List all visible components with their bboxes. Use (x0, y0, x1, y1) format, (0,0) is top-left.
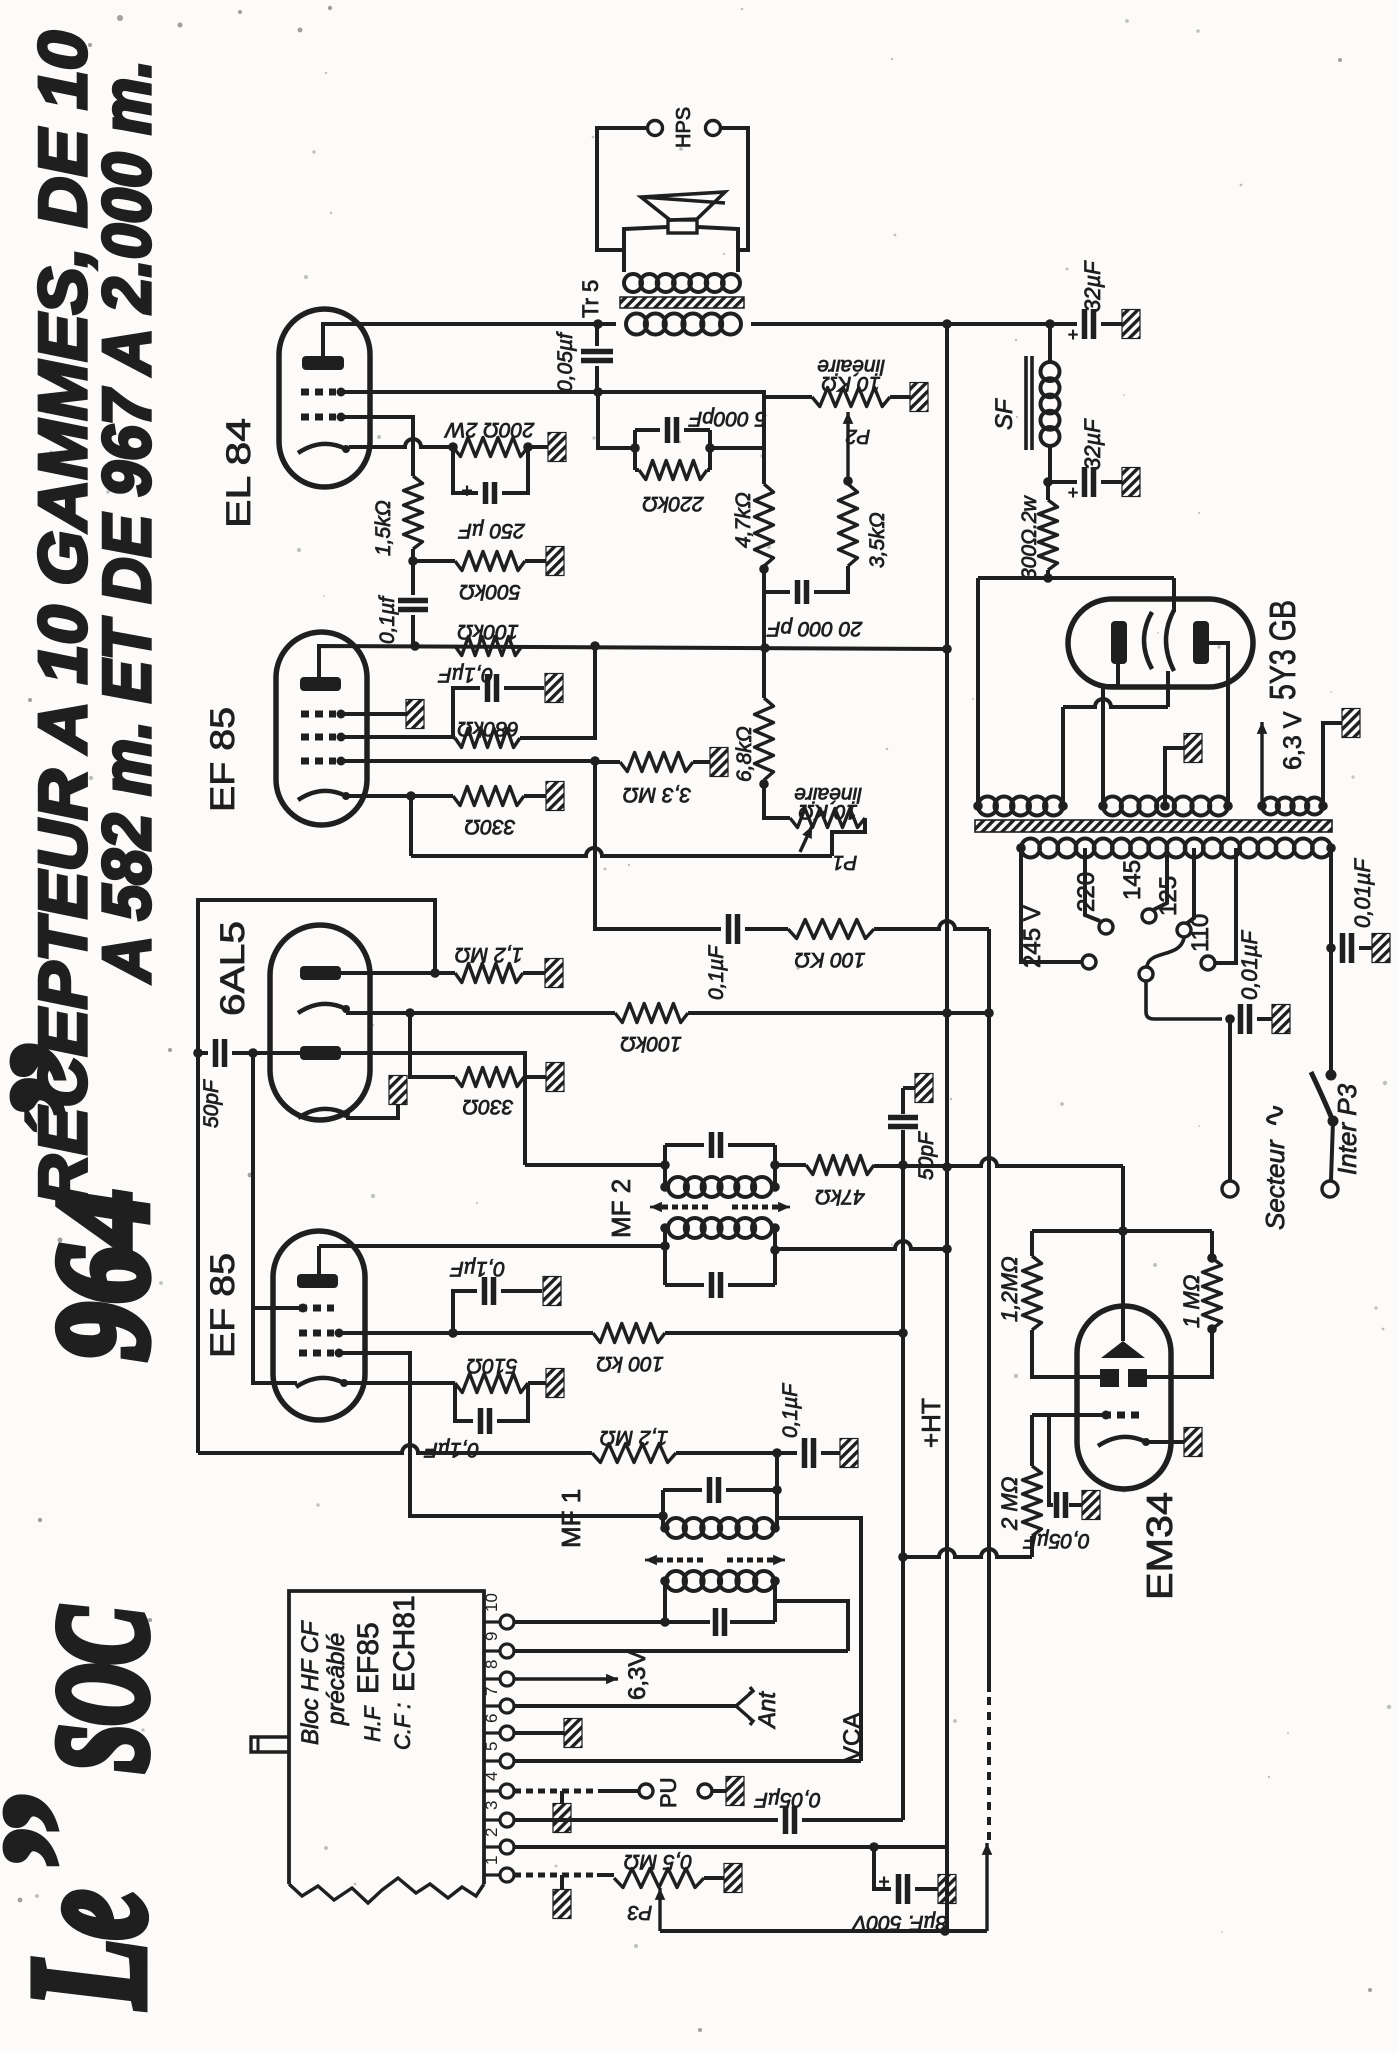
tube 5Y3GB (1068, 599, 1253, 687)
wire cathode2 to ground (346, 1104, 398, 1118)
wire pin10 to MF1 (514, 1620, 665, 1624)
wire 1M to right electrode (1147, 1329, 1212, 1377)
svg-text:0,1µF: 0,1µF (779, 1383, 802, 1438)
wire filament to 5V winding (1063, 699, 1168, 707)
choke SF winding (1048, 324, 1052, 362)
node anode-0,1uF junction (410, 641, 420, 651)
ground 330Ohm (546, 782, 564, 811)
svg-text:200Ω 2W: 200Ω 2W (444, 418, 536, 441)
svg-text:précâblé: précâblé (323, 1633, 350, 1726)
wire detector to volume (688, 1011, 989, 1015)
svg-text:500kΩ: 500kΩ (459, 580, 521, 603)
svg-text:20 000 pF: 20 000 pF (767, 617, 864, 640)
wire screen to AF filter line (665, 1331, 903, 1335)
node AF filter 1557 (898, 1552, 908, 1562)
wire rectifier top (978, 576, 1174, 580)
capacitor 0,1uF cathode second (455, 1383, 473, 1421)
ground 510Ohm (546, 1369, 564, 1398)
wire to 100k (745, 927, 788, 931)
tube EM34 (1077, 1306, 1171, 1489)
node HT rail top (942, 319, 952, 329)
transformer Tr5 secondary winding (626, 314, 647, 335)
svg-text:+: + (878, 1870, 890, 1892)
svg-text:6,8kΩ: 6,8kΩ (733, 726, 756, 782)
wire RC to 4,7k (710, 446, 764, 450)
resistor 330Ohm detector (410, 1013, 455, 1077)
resistor 500kOhm (413, 559, 455, 563)
svg-text:10 KΩ: 10 KΩ (798, 800, 857, 823)
MF1 primary tank (666, 1571, 686, 1591)
svg-text:100 KΩ: 100 KΩ (795, 948, 866, 971)
potentiometer P3 0,5MOhm (614, 1869, 704, 1888)
wire 110 tap (1216, 848, 1236, 963)
svg-text:100kΩ: 100kΩ (457, 620, 519, 643)
node detector 330 branch (405, 1008, 415, 1018)
svg-text:Bloc HF CF: Bloc HF CF (297, 1620, 324, 1745)
node screen AF-line (898, 1328, 908, 1338)
wire cathode1 AF out (346, 1011, 615, 1015)
node g1 junction (590, 756, 600, 766)
svg-text:Le: Le (0, 1890, 179, 2010)
node 4,7k bottom (759, 564, 769, 574)
capacitor 0,05uF AF (786, 1806, 795, 1834)
EM34 deflection electrodes (1100, 1369, 1119, 1387)
svg-text:A 582 m. ET DE 967 A 2.000 m.: A 582 m. ET DE 967 A 2.000 m. (89, 60, 165, 984)
ground 200Ohm (548, 433, 566, 462)
transformer core (975, 820, 1332, 832)
svg-text:8: 8 (482, 1660, 501, 1669)
svg-text:50pF: 50pF (200, 1079, 223, 1128)
wire 220 tap (1085, 848, 1100, 921)
capacitor 250uF cathode (453, 447, 478, 493)
node anode rail 595 (590, 641, 600, 651)
svg-text:47kΩ: 47kΩ (815, 1185, 865, 1208)
voltage selector link (1147, 938, 1184, 966)
wire filament top lead (1172, 578, 1176, 612)
ground PU (712, 1789, 726, 1793)
svg-text:9: 9 (482, 1632, 501, 1641)
wire VCA riser (777, 1518, 861, 1761)
svg-text:P2: P2 (846, 425, 870, 447)
terminal PU 2 (698, 1784, 712, 1798)
wire pin5 VCA (514, 1759, 861, 1763)
wire EF85-1 anode rail (319, 646, 947, 677)
wire HPS right to Tr5 frame (721, 128, 748, 250)
wire HT plate right riser (1209, 643, 1228, 806)
bloc tuning shaft (251, 1737, 289, 1752)
ground pin1 stub (560, 1875, 564, 1890)
svg-text:6: 6 (482, 1714, 501, 1723)
node detector HT cross (942, 1008, 952, 1018)
node rectifier output (1043, 573, 1053, 583)
resistor 510Ohm (455, 1374, 528, 1393)
wire 145 tap (1153, 848, 1167, 910)
wire plate2 to MF2 (341, 1053, 525, 1165)
svg-text:220: 220 (1073, 872, 1100, 912)
svg-text:6,3 V: 6,3 V (1279, 711, 1307, 770)
capacitor 5000pF (668, 417, 677, 443)
wire EL84 g2 line (345, 392, 764, 448)
wire MF2 to 47k (775, 1163, 806, 1167)
resistor 100kOhm screen (593, 1324, 665, 1343)
wire anode rail EL84 to Tr5 (323, 324, 616, 356)
node 0,01uF mains (1326, 943, 1336, 953)
svg-text:10 KΩ: 10 KΩ (821, 372, 880, 395)
svg-text:1,2MΩ: 1,2MΩ (997, 1256, 1022, 1322)
wire pin7 antenna (514, 1704, 738, 1708)
svg-text:6,3V: 6,3V (624, 1651, 651, 1700)
wire 6,3V output arrow (1260, 722, 1263, 806)
wire 50pF junction down to EF85-2 (253, 1053, 297, 1383)
svg-text:Inter P3: Inter P3 (1332, 1083, 1362, 1175)
svg-text:EL 84: EL 84 (220, 418, 258, 528)
svg-text:3,3 MΩ: 3,3 MΩ (623, 783, 692, 806)
svg-text:+: + (1067, 325, 1078, 346)
resistor P1 10k lineaire (764, 784, 790, 818)
EM34 grid (1103, 1412, 1143, 1419)
wire filament bottom lead (1166, 671, 1170, 707)
svg-text:H.F: H.F (360, 1705, 385, 1742)
wire EM34 grid lead (1032, 1413, 1103, 1417)
svg-text:1,5kΩ: 1,5kΩ (372, 500, 395, 556)
capacitor 0,1uF AF coupling (729, 914, 738, 944)
svg-text:Ant: Ant (754, 1691, 781, 1730)
resistor 200Ohm 2W (453, 438, 528, 457)
svg-text:P3: P3 (628, 1901, 652, 1923)
wire HT rail vertical (945, 324, 949, 1931)
node 47k AF-line (898, 1160, 908, 1170)
svg-text:0,1µF: 0,1µF (705, 945, 728, 1000)
node 1M bottom (1207, 1324, 1217, 1334)
wiper arrow P3 (658, 1888, 661, 1931)
wire primary right riser (1329, 848, 1333, 1075)
wire EM34 load line (1032, 1229, 1212, 1233)
resistor 6,8kOhm (762, 647, 766, 698)
svg-text:110: 110 (1187, 914, 1214, 952)
svg-text:32µF: 32µF (1080, 418, 1105, 470)
svg-text:6AL5: 6AL5 (214, 921, 252, 1016)
ground 1,2M diode (545, 959, 563, 988)
EM34 cathode (1098, 1437, 1146, 1446)
svg-text:0,1µf: 0,1µf (376, 595, 399, 644)
resistor 300Ohm 2W (1046, 482, 1050, 500)
wire MF2 sec to 6AL5 (525, 1163, 665, 1167)
wire cathode return to P1 (411, 848, 832, 856)
resistor 100kOhm detector (615, 1004, 688, 1023)
tube EF85 second (273, 1231, 365, 1420)
svg-text:PU: PU (656, 1777, 681, 1808)
svg-text:ECH81: ECH81 (388, 1595, 421, 1692)
svg-text:Tr 5: Tr 5 (578, 280, 603, 318)
ground g3 (406, 700, 424, 729)
tube 6AL5 (270, 925, 370, 1120)
node SF top (1045, 319, 1055, 329)
svg-text:1: 1 (482, 1856, 501, 1865)
scan speckle noise (decorative) (891, 58, 893, 60)
ground AF filter top (903, 1086, 915, 1090)
svg-text:50pF: 50pF (915, 1131, 938, 1180)
svg-text:3,5kΩ: 3,5kΩ (866, 512, 889, 568)
potentiometer P2 10k lineaire (764, 395, 812, 399)
node shield-plate1 (430, 968, 440, 978)
parallel RC 5000pF/220k box (633, 430, 637, 470)
capacitor 32uF second (1048, 480, 1077, 484)
ground 0,1uF g2 second (543, 1277, 561, 1306)
capacitor 20000pF (764, 590, 790, 594)
capacitor 8uF 500V (874, 1847, 891, 1889)
wire pin2 line (514, 1845, 947, 1849)
wire grid to 2M (1030, 1415, 1034, 1466)
transformer secondary 5V winding (978, 797, 997, 816)
speaker magnet (668, 220, 697, 233)
ground cathode2 (389, 1076, 407, 1105)
wire Tr5 secondary right to HT node (751, 322, 1075, 326)
svg-text:5: 5 (482, 1742, 501, 1751)
bloc torn bottom edge (289, 1878, 484, 1903)
MF2 primary tank (668, 1218, 688, 1238)
transformer secondary 6,3V winding (1262, 798, 1279, 815)
svg-text:32µF: 32µF (1080, 260, 1105, 312)
terminal HPS right (706, 121, 721, 136)
wire g2 node to RC combo (598, 392, 635, 448)
svg-text:7: 7 (482, 1687, 501, 1696)
wire 1,2M to left electrode (1032, 1330, 1101, 1377)
svg-text:MF 1: MF 1 (556, 1489, 586, 1548)
svg-text:1,2 MΩ: 1,2 MΩ (455, 943, 524, 966)
svg-text:220kΩ: 220kΩ (642, 492, 705, 515)
wire EM34 supply line (1121, 1166, 1125, 1341)
resistor 680kOhm (455, 729, 520, 748)
wire 0,05uF to AF filter riser (802, 1818, 903, 1822)
node pin2 8uF (869, 1842, 879, 1852)
node wiper pin2 (940, 1926, 950, 1936)
svg-text:0,5 MΩ: 0,5 MΩ (624, 1850, 693, 1873)
node g2-0,05uF (593, 387, 603, 397)
MF2 secondary tank (663, 1145, 667, 1187)
node MF1 g1 feed (658, 1511, 668, 1521)
svg-text:300Ω.2w: 300Ω.2w (1018, 494, 1041, 580)
wire pin9 line (514, 1649, 848, 1653)
svg-text:245 V: 245 V (1019, 905, 1046, 968)
capacitor 0,01uF selector (1230, 1017, 1233, 1021)
wire EF85-1 cathode (349, 794, 453, 798)
wire 6,3V right to ground (1323, 723, 1342, 806)
svg-text:330Ω: 330Ω (464, 815, 515, 838)
svg-text:0,01µF: 0,01µF (1350, 858, 1375, 928)
terminal secteur (1222, 1181, 1238, 1197)
node rail-Tr5 left (593, 319, 603, 329)
svg-text:+: + (461, 479, 473, 501)
wire EL84 g1 to 1,5k (345, 417, 413, 476)
svg-text:VCA: VCA (839, 1713, 866, 1762)
svg-text:5 000pF: 5 000pF (688, 407, 766, 430)
node 6,8k bottom (759, 779, 769, 789)
resistor 3,5kOhm (839, 484, 858, 566)
node anode rail 765 (760, 643, 770, 653)
wire EF85-2 anode to MF2 (319, 1244, 665, 1248)
svg-text:+HT: +HT (916, 1398, 946, 1448)
svg-text:2 MΩ: 2 MΩ (997, 1477, 1022, 1531)
resistor 100kOhm AF anode (455, 637, 522, 656)
wire EF85-2 anode lead (317, 1246, 321, 1274)
MF1 tuning dashes (657, 1558, 703, 1563)
tube EL84 (279, 309, 370, 487)
svg-text:5Y3 GB: 5Y3 GB (1262, 600, 1303, 700)
svg-text:100kΩ: 100kΩ (620, 1032, 682, 1055)
node 47k HT (942, 1162, 952, 1172)
resistor 1,2MOhm diode load (455, 964, 523, 983)
wire HT center tap ground (1160, 801, 1170, 811)
svg-text:4,7kΩ: 4,7kΩ (732, 492, 755, 548)
capacitor 0,01uF mains (1331, 946, 1335, 950)
resistor 47kOhm (806, 1156, 874, 1175)
wire volume riser dashed (987, 1692, 991, 1840)
node cathode junction (406, 791, 416, 801)
wire EF85-2 g2 (343, 1331, 593, 1335)
wire g3 loop to 50pF node (253, 1306, 303, 1310)
resistor 2MOhm (1023, 1466, 1042, 1536)
svg-text:2: 2 (482, 1828, 501, 1837)
wire EF85-2 g1 to MF1 (343, 1353, 663, 1516)
svg-text:330Ω: 330Ω (462, 1095, 513, 1118)
capacitor 32uF first (1075, 322, 1077, 326)
wire pin4 PU (514, 1789, 598, 1794)
antenna Ant symbol (736, 1687, 753, 1725)
node anode rail HT (942, 644, 952, 654)
terminal HPS left (648, 121, 663, 136)
capacitor 0,1uF g2 second (453, 1291, 477, 1333)
ground 500k (546, 547, 564, 576)
wire shield bottom AVC line (198, 1445, 592, 1453)
resistor 1MOhm EM34 (1203, 1258, 1222, 1329)
wire pin1 dashes to P3 (514, 1873, 597, 1878)
wiper arrow P2 (846, 412, 849, 481)
svg-text:125: 125 (1155, 876, 1182, 916)
5Y3GB filament arcs (1144, 612, 1152, 669)
ground P2 (910, 383, 928, 412)
wire 245V tap (1021, 848, 1081, 962)
wire pin3 to 0,05uF (514, 1818, 778, 1822)
svg-text:HPS: HPS (673, 107, 695, 148)
svg-text:EM34: EM34 (1139, 1492, 1180, 1600)
choke SF core (1026, 356, 1032, 450)
ground 0,01uF selector (1272, 1005, 1290, 1034)
ground pin4 stub (560, 1791, 564, 1804)
svg-text:SOC: SOC (32, 1607, 173, 1772)
ground 330 detector (546, 1063, 564, 1092)
wire MF2 primary to HT (770, 1245, 780, 1255)
svg-text:C.F :: C.F : (390, 1703, 415, 1750)
wire 100k to volume riser (874, 921, 989, 929)
ground 32uF second (1122, 468, 1140, 497)
node MF2 HT (942, 1244, 952, 1254)
wire 47k to EM34 rail (874, 1158, 1123, 1166)
transformer primary winding (1021, 839, 1040, 858)
ground 8uF (938, 1875, 956, 1904)
ground 0,1uF AVC (840, 1439, 858, 1468)
capacitor 0,05uF (595, 324, 599, 346)
wire P3 wiper line (660, 1929, 987, 1933)
node 1,5k bottom (408, 556, 418, 566)
node EM34 supply 1231 (1118, 1226, 1128, 1236)
resistor 1,2MOhm EM34 (1023, 1256, 1042, 1330)
node 50pF to EF85 g3 (248, 1048, 258, 1058)
svg-text:P1: P1 (833, 851, 857, 873)
wire AF filter vertical (901, 1088, 905, 1114)
bloc HF CF box (289, 1591, 484, 1884)
svg-text:0,1µF: 0,1µF (450, 1257, 505, 1280)
wire 2M to AF line (1030, 1536, 1034, 1557)
wire HT plate left riser (1103, 664, 1118, 806)
wire 5V winding left riser (976, 578, 980, 806)
svg-text:∿: ∿ (1258, 1103, 1291, 1128)
node 3,5k top (843, 476, 853, 486)
resistor 1,2MOhm AVC (592, 1444, 676, 1463)
wire HPS left to Tr5 frame (597, 128, 647, 250)
capacitor 50pF AF filter (888, 1118, 918, 1127)
node 1M top (1207, 1253, 1217, 1263)
bloc pins 1-10 (484, 1620, 500, 1623)
EM34 target triangle (1101, 1341, 1145, 1358)
switch Inter P3 (1326, 1070, 1337, 1081)
svg-text:0,05µF: 0,05µF (1023, 1529, 1090, 1552)
svg-text:”: ” (0, 1794, 155, 1879)
resistor 330Ohm first (453, 787, 524, 806)
wire EL84 cathode line (349, 439, 453, 447)
node shield 50pF (193, 1048, 203, 1058)
node g2 0,1uF (448, 1328, 458, 1338)
svg-text:+: + (1067, 483, 1078, 504)
svg-text:8µF. 500V: 8µF. 500V (851, 1911, 948, 1934)
resistor 220kOhm (635, 468, 639, 472)
transformer Tr5 primary winding (622, 252, 626, 272)
svg-text:964: 964 (29, 1190, 175, 1360)
capacitor 0,05uF EM34 grid (1049, 1415, 1053, 1505)
wire volume riser solid bottom (985, 1843, 988, 1931)
transformer Tr5 core (620, 297, 744, 308)
svg-text:0,05µF: 0,05µF (754, 1788, 821, 1811)
resistor 4,7kOhm (762, 448, 766, 484)
svg-text:250 µF: 250 µF (458, 519, 526, 542)
node selector 0,01uF (1225, 1014, 1235, 1024)
node AVC MF1 (772, 1448, 782, 1458)
svg-text:0,01µF: 0,01µF (1237, 930, 1262, 1000)
MF1 secondary tank (775, 1453, 779, 1528)
svg-text:0,05µf: 0,05µf (554, 331, 577, 392)
svg-text:1,2 MΩ: 1,2 MΩ (600, 1426, 669, 1449)
wire pin6 ground (514, 1731, 564, 1735)
transformer secondary HT winding (1103, 797, 1122, 816)
ground 0,1uF g2 (545, 674, 563, 703)
wiper arrow P1 (800, 826, 812, 852)
node MF2 sec right (770, 1160, 780, 1170)
svg-text:SF: SF (991, 398, 1018, 430)
svg-text:MF 2: MF 2 (606, 1179, 636, 1238)
svg-text:145: 145 (1119, 860, 1146, 900)
resistor 3,3MOhm (595, 760, 620, 764)
wire secteur drop (1228, 1019, 1232, 1180)
svg-text:EF85: EF85 (352, 1622, 385, 1694)
svg-text:Secteur: Secteur (1260, 1139, 1290, 1230)
node SF bottom (1043, 477, 1053, 487)
wire MF1 primary to pin9 riser (775, 1601, 848, 1651)
svg-text:3: 3 (482, 1801, 501, 1810)
ground 0,01uF mains (1372, 934, 1390, 963)
ground 32uF first (1122, 310, 1140, 339)
resistor 1,5kOhm (404, 476, 423, 549)
wire pin8 heater (514, 1677, 618, 1680)
speaker HP cone (641, 192, 725, 220)
